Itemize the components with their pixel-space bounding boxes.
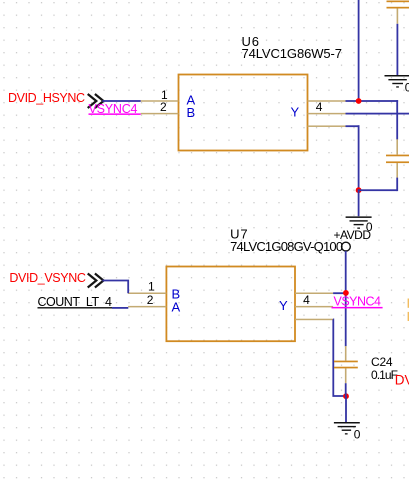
U7 pin 4 (Y output): [295, 306, 333, 308]
net label COUNT_LT_4 underline: [38, 307, 113, 308]
wire +AVDD down to C24: [345, 251, 347, 346]
svg-text:DVD: DVD: [395, 372, 409, 387]
wire down to decoupling cap (x=397.2): [396, 100, 398, 139]
svg-text:A: A: [172, 299, 181, 314]
port DVID_HSYNC chevron symbol: [88, 94, 104, 108]
svg-text:COUNT_LT_4: COUNT_LT_4: [38, 295, 113, 309]
svg-text:DVID_VSYNC: DVID_VSYNC: [9, 271, 86, 285]
svg-text:2: 2: [160, 100, 167, 114]
U7 pin 1 (B): [128, 293, 166, 295]
net label VSYNC4 underline / wire: [89, 113, 141, 115]
U7 pin 2 (A): [128, 306, 166, 308]
U6 pin 4 (Y output): [308, 113, 346, 115]
U7 pin 5 (VCC, right top): [295, 293, 333, 295]
IC U7 74LVC1G08 AND gate body: [166, 267, 295, 342]
U6 pin 3 (GND, right bottom): [308, 125, 346, 127]
wire COUNT_LT_4 to U7 pin2: [112, 307, 128, 309]
power port +AVDD circle symbol: [342, 242, 351, 251]
svg-text:VSYNC4: VSYNC4: [334, 295, 382, 309]
wire vertical GND net x=358.6: [358, 125, 360, 191]
wire cap bottom return y=190.2: [358, 189, 398, 191]
wire DVID_HSYNC to U6 pin1: [102, 100, 140, 102]
U7 pin 3 (GND, right bottom): [295, 319, 333, 321]
svg-text:B: B: [187, 105, 196, 120]
junction C24 / GND net: [343, 393, 349, 399]
IC U6 74LVC1G86 XOR gate body: [179, 75, 308, 151]
wire top cap to top-right ground: [397, 24, 399, 75]
svg-text:4: 4: [303, 293, 310, 307]
svg-text:0: 0: [354, 427, 361, 441]
capacitor (mid right, clipped at edge): [386, 139, 409, 178]
U6 pin 2 (B): [141, 113, 179, 115]
wire U6 VCC row y=101: [346, 100, 399, 102]
svg-text:DVID_HSYNC: DVID_HSYNC: [8, 91, 85, 105]
svg-text:4: 4: [316, 100, 323, 114]
wire U7 GND pin down: [333, 319, 346, 396]
svg-text:1: 1: [148, 279, 155, 293]
U6 pin 5 (VCC, right top): [308, 100, 346, 102]
junction at U6 VCC row: [356, 98, 362, 104]
svg-text:0: 0: [405, 80, 409, 94]
net label VSYNC4 underline: [332, 307, 383, 309]
svg-text:74LVC1G86W5-7: 74LVC1G86W5-7: [242, 46, 343, 61]
wire U6 GND pin to vertical: [346, 125, 360, 127]
wire U7 VCC pin to +AVDD junction: [333, 292, 346, 294]
svg-text:74LVC1G08GV-Q100: 74LVC1G08GV-Q100: [230, 239, 343, 254]
svg-text:2: 2: [147, 293, 154, 307]
U6 pin 1 (A): [141, 100, 179, 102]
wire U6 Y output to right edge y=113.6: [346, 113, 409, 115]
ground symbol top-right (0): [385, 75, 409, 88]
wire junction down to bottom ground: [345, 396, 347, 422]
wire cap bottom to return: [396, 178, 398, 192]
wire C24 bottom to junction: [345, 383, 347, 397]
wire junction down to ground symbol: [358, 190, 360, 216]
wire from top to VCC junction (vertical x=358.6): [358, 0, 360, 102]
junction U7 VCC / +AVDD: [343, 290, 349, 296]
svg-text:Y: Y: [291, 105, 300, 120]
capacitor (top right, clipped at edge): [387, 1, 409, 24]
port DVID_VSYNC chevron symbol: [88, 274, 104, 288]
ground symbol mid (U6 GND): [346, 216, 372, 228]
capacitor C24 plates: [334, 346, 358, 383]
junction GND net / cap return: [356, 187, 362, 193]
wire DVID_VSYNC to U7 pin1: [102, 281, 128, 294]
clipped component fragment right edge: [408, 299, 409, 322]
svg-text:Y: Y: [279, 298, 288, 313]
svg-text:C24: C24: [371, 355, 393, 369]
ground symbol bottom (0): [334, 422, 360, 435]
